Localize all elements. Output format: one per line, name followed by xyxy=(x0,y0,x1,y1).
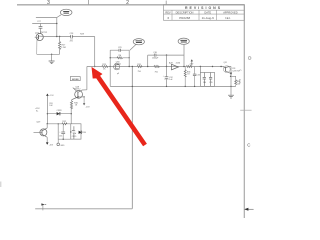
svg-text:C28: C28 xyxy=(70,33,75,35)
op-amp U28 triangle xyxy=(172,64,179,70)
node junction x110.2 y57.8 xyxy=(110,57,111,58)
node junction x200.4 y66.5 xyxy=(200,66,201,67)
svg-text:100: 100 xyxy=(237,83,240,85)
svg-text:-15V: -15V xyxy=(86,107,91,109)
svg-text:pF: pF xyxy=(117,73,120,75)
svg-text:R28: R28 xyxy=(80,34,85,36)
svg-text:6: 6 xyxy=(167,16,169,20)
node junction x51.6 y54.3 xyxy=(51,54,52,55)
svg-text:C30: C30 xyxy=(153,52,158,54)
svg-text:C29: C29 xyxy=(118,47,123,49)
wire Q29 emitter vertical xyxy=(46,137,48,142)
wire R27 leads vertical xyxy=(59,37,61,55)
transistor Q28 noise labels xyxy=(74,87,80,91)
svg-text:+: + xyxy=(163,75,165,77)
wire ground drop x230.6 xyxy=(230,86,232,95)
resistor R36 xyxy=(235,80,237,85)
wire ground stub xyxy=(51,54,53,61)
svg-text:2N4856: 2N4856 xyxy=(114,63,120,65)
node junction x70.8 y132 xyxy=(70,131,71,132)
transistor Q29 xyxy=(34,128,48,137)
capacitor C32 electrolytic xyxy=(163,67,174,87)
svg-text:REV: REV xyxy=(165,10,171,14)
resistor R30 xyxy=(70,101,72,109)
wire vertical x94.7 xyxy=(94,37,96,67)
node junction x57 y36.5 xyxy=(56,36,57,37)
wire oval J27 lead diagonal xyxy=(57,15,61,18)
svg-text:GND: GND xyxy=(60,145,65,147)
node junction x129.2 y57.8 xyxy=(129,57,130,58)
resistor R27 label xyxy=(61,45,66,49)
wire feedback left vertical x110.2 xyxy=(109,50,111,86)
svg-text:CR29: CR29 xyxy=(72,136,77,138)
node junction x185.2 y86.4 xyxy=(185,86,186,87)
svg-text:DESCRIPTION: DESCRIPTION xyxy=(176,10,194,14)
revisions table column line 1 xyxy=(171,10,173,20)
node junction x132.3 y66.5 xyxy=(132,66,133,67)
wire upper rail riser x147.7 xyxy=(147,55,149,66)
node junction x166.5 y86.4 xyxy=(166,86,167,87)
sheet right border line xyxy=(243,5,245,218)
node junction x47.4 y113.7 xyxy=(47,113,48,114)
wire vertical x57 xyxy=(56,18,58,37)
svg-text:1K: 1K xyxy=(187,74,190,76)
red annotation arrow xyxy=(92,67,147,146)
resistor R27 xyxy=(58,42,60,50)
svg-text:Q29: Q29 xyxy=(36,122,41,124)
resistor R33 on main wire xyxy=(187,66,192,68)
wire bottom long horizontal y208.8 xyxy=(35,208,132,210)
resistor R36 label xyxy=(237,81,240,85)
svg-text:APPROVED: APPROVED xyxy=(223,10,238,14)
node junction x212.5 y66.5 xyxy=(212,66,213,67)
wire bottom rail y139.2 xyxy=(58,138,81,140)
node junction x59.6 y36.5 xyxy=(59,36,60,37)
node junction x166.5 y55.1 xyxy=(166,54,167,55)
svg-text:C35: C35 xyxy=(209,82,212,84)
svg-text:DATE: DATE xyxy=(204,10,211,14)
connector oval J27 top left xyxy=(60,9,72,15)
svg-text:1M: 1M xyxy=(118,55,121,57)
wire stub with arrow at right border bottom xyxy=(244,208,253,211)
svg-text:I.E.I.: I.E.I. xyxy=(225,16,231,20)
svg-text:C34: C34 xyxy=(203,82,206,84)
capacitor small x194.6 xyxy=(193,67,200,87)
wire feedback top branch y50.2 xyxy=(110,49,129,51)
svg-text:C28 OUT: C28 OUT xyxy=(232,70,241,72)
wire Q28 collector to riser xyxy=(82,89,87,91)
svg-text:NOISE: NOISE xyxy=(72,79,79,81)
svg-text:C: C xyxy=(247,143,250,148)
wire horizontal y23.5 xyxy=(32,23,57,25)
svg-text:-15V: -15V xyxy=(49,145,54,147)
svg-text:PR2268: PR2268 xyxy=(179,16,190,20)
supply terminal arrow up x47.4 xyxy=(46,94,54,97)
supply arrow -15 below Q29 xyxy=(46,142,54,146)
capacitor C27 xyxy=(39,24,43,34)
resistor R32 xyxy=(62,123,67,125)
svg-text:1K: 1K xyxy=(75,105,78,107)
svg-text:3: 3 xyxy=(47,0,50,6)
wire row y123.8 with resistor R32 xyxy=(47,123,71,125)
zone tick top at x=88 xyxy=(87,0,89,5)
revisions table title divider xyxy=(164,9,245,11)
svg-text:2: 2 xyxy=(126,0,129,6)
capacitor C34 in box left xyxy=(203,73,206,87)
stub mark left of border upper xyxy=(239,69,241,72)
svg-text:C33: C33 xyxy=(197,74,200,76)
svg-text:Q31: Q31 xyxy=(223,62,226,64)
svg-text:+15V: +15V xyxy=(189,64,194,66)
resistor R29 on main wire xyxy=(102,66,108,68)
node junction x230.6 y76.3 xyxy=(230,76,231,77)
svg-text:A28: A28 xyxy=(169,62,173,65)
node junction x84.1 y96.9 xyxy=(83,96,84,97)
transistor Q27 xyxy=(35,33,44,40)
sheet top border line xyxy=(17,4,245,6)
wire J28 vertical x184 xyxy=(183,44,185,66)
svg-text:+15V: +15V xyxy=(49,95,54,97)
node junction x194.6 y86.4 xyxy=(194,86,195,87)
node junction x184 y66.5 xyxy=(183,66,184,67)
wire horizontal y54.3 xyxy=(37,53,60,55)
svg-text:750: 750 xyxy=(155,72,159,74)
wire bottom rail y86.4 xyxy=(110,85,236,87)
revisions table header divider xyxy=(164,13,245,15)
svg-text:+: + xyxy=(59,131,61,133)
revisions table column line 3 xyxy=(216,10,218,20)
connector oval TP28 xyxy=(133,39,144,45)
zone tick top at x=166 xyxy=(165,1,167,5)
transistor Q31 output xyxy=(223,66,231,74)
wire Q29 collector vertical xyxy=(46,124,48,128)
wire vertical x86.9 noise collector riser xyxy=(86,67,88,90)
resistor R30 label xyxy=(74,103,79,107)
diode CR28 xyxy=(57,112,60,115)
node junction x71.2 y113.7 xyxy=(71,113,72,114)
svg-text:1500pF: 1500pF xyxy=(152,57,159,59)
transistor Q30 fet labels xyxy=(114,61,120,74)
capacitor C28 series xyxy=(71,35,73,38)
svg-text:B+: B+ xyxy=(36,110,38,112)
node junction x129.2 y66.5 xyxy=(129,66,130,67)
node junction x132.3 y86.4 xyxy=(132,86,133,87)
wire vertical x58.2 left branch xyxy=(57,124,59,139)
module box right xyxy=(200,73,214,87)
node junction x230.6 y86.4 xyxy=(230,86,231,87)
wire oval TP28 diagonal lead xyxy=(130,45,136,51)
node junction x221.1 y66.5 xyxy=(220,66,221,67)
diode CR30 at box right edge xyxy=(79,131,86,134)
revisions table column line 2 xyxy=(198,10,200,20)
svg-text:10K: 10K xyxy=(49,105,53,107)
capacitor C30 on upper rail xyxy=(154,54,156,57)
wire R30 bottom vertical xyxy=(70,108,72,124)
faint mark left edge xyxy=(0,182,1,188)
resistor R34 below main xyxy=(184,67,186,87)
wire stub to R36 xyxy=(231,76,236,80)
test point circle below rail xyxy=(57,139,65,147)
junction arrow marker on bottom wire xyxy=(41,203,46,210)
node junction x57 y23.5 xyxy=(56,23,57,24)
supply arrow +15 right xyxy=(189,59,194,66)
module box lower xyxy=(71,124,81,139)
op-amp U28 label xyxy=(169,62,181,65)
svg-text:CR30: CR30 xyxy=(81,132,86,134)
node junction x58.2 y123.8 xyxy=(58,123,59,124)
wire upper rail y55.1 xyxy=(148,54,184,56)
zone divider tick right border xyxy=(240,109,251,111)
zener CR29 inside box xyxy=(72,126,77,139)
label beside supply vertical xyxy=(49,103,53,107)
wire Q31 collector vertical xyxy=(230,67,232,87)
transistor Q28 noise xyxy=(72,88,83,100)
resistor R31 on main wire xyxy=(137,66,142,68)
svg-text:2.2M: 2.2M xyxy=(61,47,66,49)
resistor R on main wire second xyxy=(154,66,159,68)
node junction x166.5 y66.5 xyxy=(166,66,167,67)
wire R36 bottom xyxy=(235,85,237,87)
label box NOISE xyxy=(70,77,80,81)
svg-text:1uF: 1uF xyxy=(169,79,173,81)
wire main horizontal y66.5 xyxy=(87,66,231,68)
svg-text:C35: C35 xyxy=(59,135,62,137)
transistor Q27 labels xyxy=(35,32,48,34)
svg-text:11-Aug-9: 11-Aug-9 xyxy=(202,16,214,20)
node junction x147.7 y66.5 xyxy=(147,66,148,67)
svg-text:D: D xyxy=(248,55,251,60)
wire feedback right vertical x129.2 xyxy=(128,50,130,66)
svg-text:1K: 1K xyxy=(103,68,106,70)
resistor R in middle branch xyxy=(117,57,123,59)
wire main left horizontal y36.5 xyxy=(43,36,94,38)
wire drop x200.4 xyxy=(199,67,201,73)
node junction x110.2 y66.5 xyxy=(110,66,111,67)
ground symbol left xyxy=(49,61,55,64)
wire Q28 emitter to supply stub xyxy=(79,96,84,98)
wire vertical x47.4 supply to Q29 xyxy=(46,96,48,124)
transistor Q30 fet on main wire xyxy=(114,64,120,70)
supply arrow -15 below emitter xyxy=(83,97,90,109)
wire Q28 emitter lead xyxy=(71,100,73,101)
connector oval J28 xyxy=(178,38,189,44)
capacitor C29 in top branch xyxy=(119,49,121,52)
wire horizontal y17 xyxy=(36,17,57,19)
node junction x63.2 y139.2 xyxy=(63,139,64,140)
node junction x94.7 y66.5 xyxy=(94,66,95,67)
node junction x47.2 y123.8 xyxy=(47,123,48,124)
svg-text:750: 750 xyxy=(138,71,142,73)
svg-text:REVISIONS: REVISIONS xyxy=(185,6,222,10)
resistor R34 label xyxy=(187,71,191,75)
wire vertical long x132.3 xyxy=(131,67,133,209)
wire Q27 emitter vertical xyxy=(36,41,38,55)
stub mark left of border lower xyxy=(239,80,241,85)
svg-text:CR28: CR28 xyxy=(57,110,62,112)
wire riser x166.5 rail to main xyxy=(166,55,168,66)
svg-text:25V: 25V xyxy=(70,41,74,43)
collector arrow Q31 xyxy=(230,73,232,75)
capacitor C35b in box right xyxy=(209,73,212,87)
wire feedback middle branch y57.8 xyxy=(110,57,129,59)
revisions table outer frame xyxy=(164,5,245,21)
svg-text:C27: C27 xyxy=(37,21,42,23)
wire diode row y113.7 xyxy=(47,113,71,115)
svg-text:4136: 4136 xyxy=(176,63,181,65)
ground symbol right xyxy=(228,95,234,98)
net label +15V left of diode row xyxy=(35,108,40,112)
capacitor C35 branch xyxy=(59,124,65,139)
